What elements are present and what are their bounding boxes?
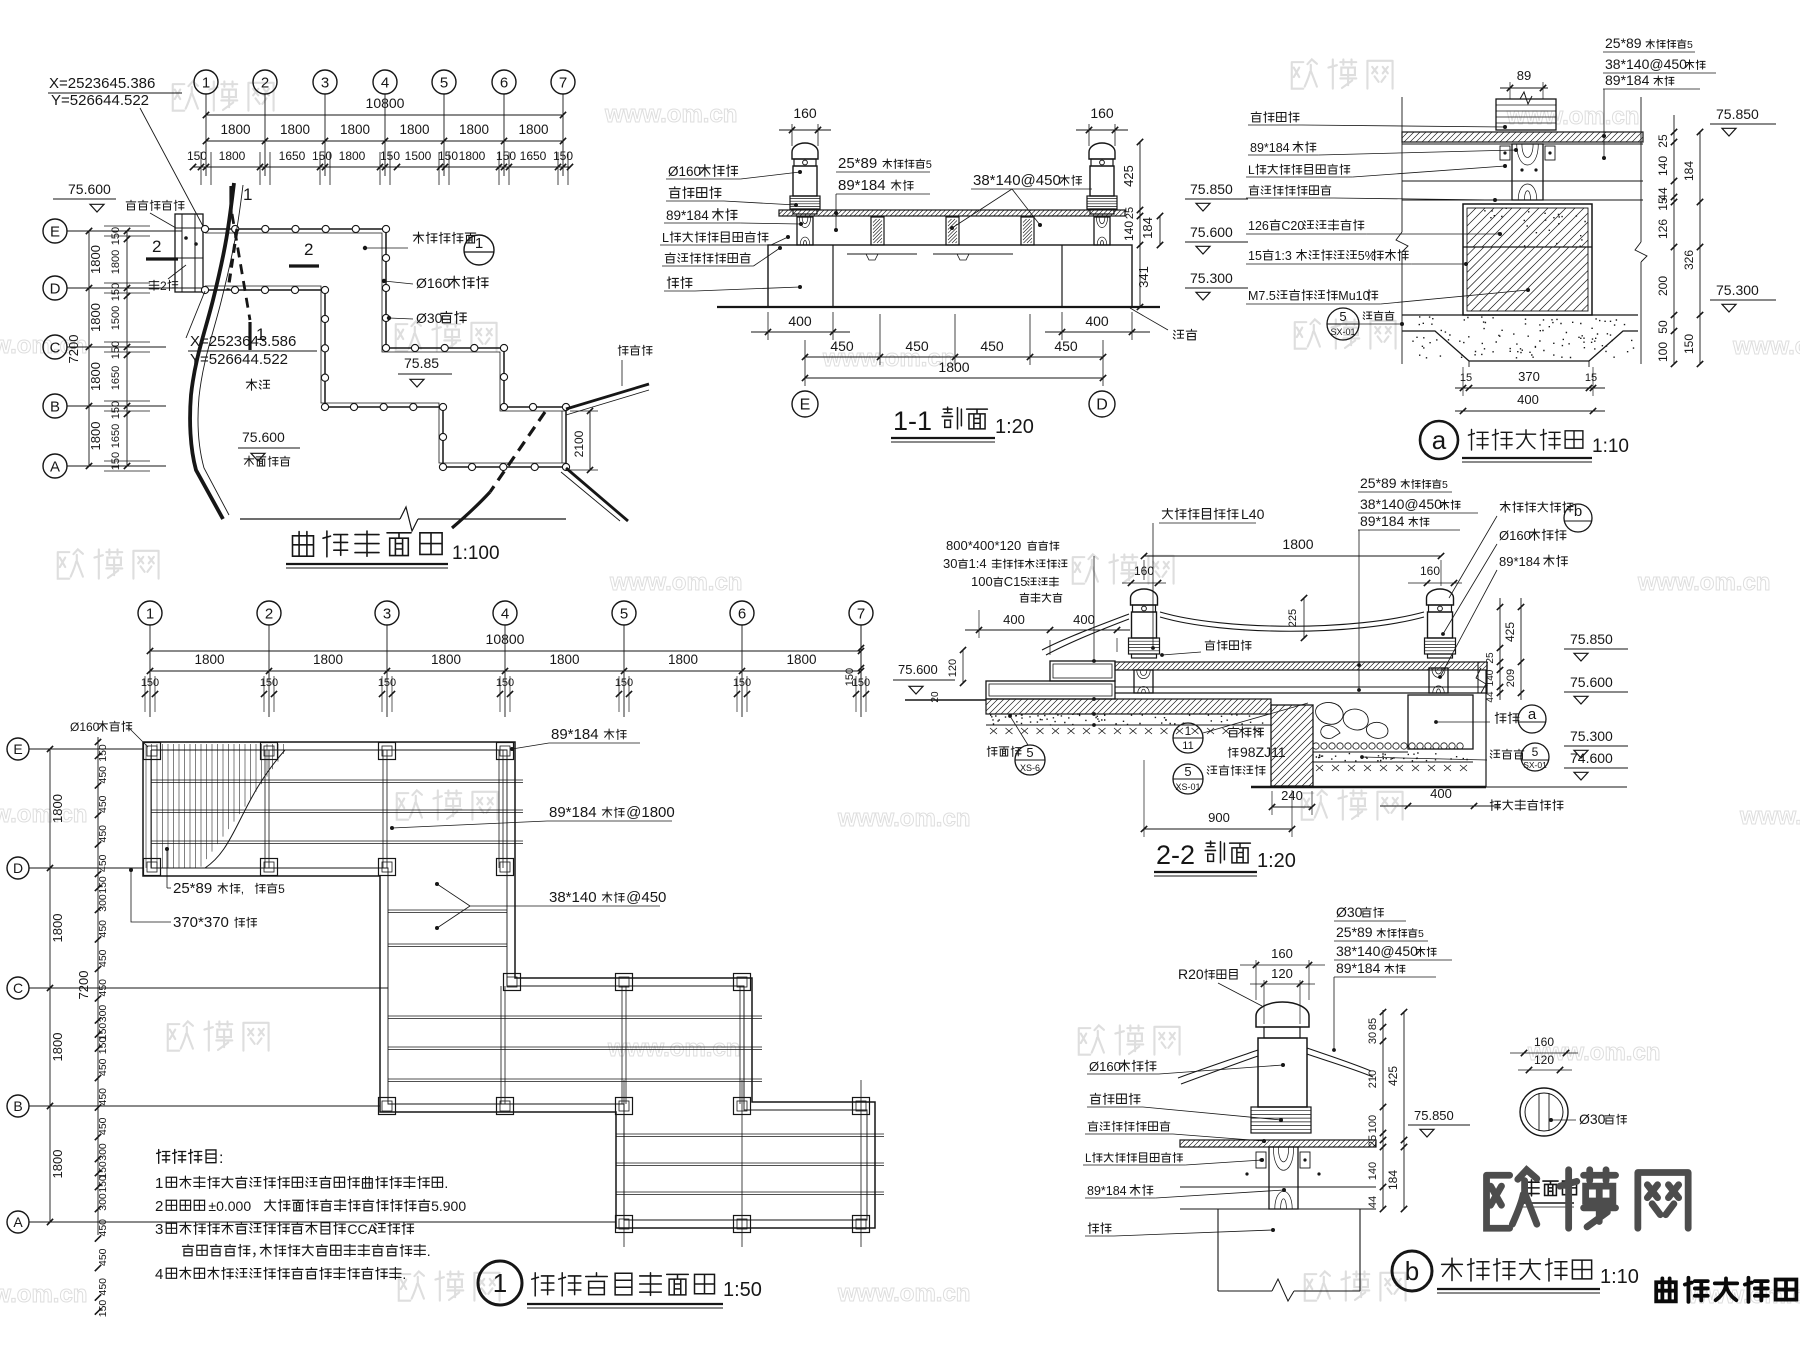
- svg-text:C: C: [13, 980, 23, 996]
- svg-text:1800: 1800: [219, 149, 246, 163]
- wood beam block under left post: [797, 217, 813, 245]
- shore diagonal below deck end: [566, 468, 628, 521]
- svg-text:3: 3: [155, 1221, 163, 1238]
- svg-text:1800: 1800: [50, 914, 65, 943]
- beam row bubble E: [7, 738, 29, 760]
- dashed shore diagonal bottom-right: [490, 412, 545, 492]
- svg-text:450: 450: [97, 1278, 109, 1296]
- shore line right diagonal: [566, 384, 649, 409]
- rope label 2-2: [1205, 640, 1215, 650]
- beam plan left dim chain: [49, 749, 51, 1222]
- svg-text:126: 126: [1248, 219, 1269, 233]
- svg-text:1500: 1500: [110, 306, 122, 330]
- svg-text:450: 450: [97, 1117, 109, 1135]
- svg-text:400: 400: [1003, 612, 1025, 627]
- svg-text:1800: 1800: [549, 652, 579, 667]
- svg-text:B: B: [50, 398, 60, 415]
- svg-text:1800: 1800: [339, 149, 366, 163]
- band C interior beams: [616, 1133, 884, 1135]
- svg-text:1:20: 1:20: [995, 416, 1034, 438]
- hatch wavy boundary: [205, 750, 285, 868]
- svg-text:www.om.cn: www.om.cn: [0, 801, 87, 828]
- plan dims 1800 row: [206, 140, 563, 142]
- svg-text:75.600: 75.600: [1570, 674, 1613, 690]
- svg-text:www.om.cn: www.om.cn: [837, 805, 970, 832]
- svg-text:A: A: [13, 1214, 23, 1230]
- design notes: [157, 1150, 170, 1164]
- svg-text:2: 2: [304, 240, 313, 259]
- svg-text:150: 150: [553, 149, 573, 163]
- beam row bubble D: [7, 857, 29, 879]
- svg-text:1-1: 1-1: [893, 406, 932, 436]
- svg-text:www.om.cn: www.om.cn: [1637, 569, 1770, 596]
- svg-text:2: 2: [265, 605, 273, 622]
- svg-text:E: E: [50, 223, 60, 240]
- deck plank band detail a: [1402, 132, 1643, 142]
- title detail b: [1392, 1251, 1432, 1291]
- label wood post detail ref b: [1500, 502, 1510, 513]
- row bubble E: [43, 219, 67, 243]
- svg-text:1800: 1800: [399, 122, 429, 137]
- svg-text:15: 15: [1460, 372, 1472, 384]
- section mark 1 top: [229, 186, 232, 214]
- svg-text:425: 425: [1121, 165, 1136, 187]
- band C grid verticals: [623, 1080, 625, 1247]
- svg-text:2: 2: [261, 74, 269, 91]
- svg-text:L40: L40: [1241, 506, 1265, 522]
- dims 400 below 1-1: [751, 331, 850, 333]
- svg-text:900: 900: [1208, 810, 1230, 825]
- svg-text:400: 400: [1430, 786, 1452, 801]
- svg-text:1:50: 1:50: [723, 1279, 762, 1301]
- grid bubble 5: [432, 70, 456, 94]
- svg-text:2: 2: [152, 237, 161, 256]
- pavement layers 2-2: [986, 699, 1271, 714]
- svg-text:450: 450: [97, 1058, 109, 1076]
- svg-text:.: .: [444, 1175, 448, 1191]
- label up-2-steps: [149, 280, 159, 290]
- beam plan inner edge lines: [151, 750, 867, 1220]
- svg-text:1800: 1800: [88, 422, 103, 451]
- svg-text:89: 89: [1517, 68, 1531, 83]
- svg-text:1800: 1800: [194, 652, 224, 667]
- beam plan post squares: [144, 743, 161, 760]
- row bubble B: [43, 394, 67, 418]
- title detail a: [1420, 421, 1458, 459]
- dim 900 2-2: [1144, 828, 1292, 830]
- detail-a left labels: [1251, 112, 1261, 122]
- dim 400 footing: [1455, 410, 1605, 412]
- svg-text:38*140@450: 38*140@450: [1360, 496, 1442, 512]
- svg-text:150: 150: [1682, 334, 1696, 354]
- svg-text:Ø160: Ø160: [1499, 528, 1531, 543]
- svg-text:XS-01: XS-01: [1175, 782, 1200, 792]
- label garage slab: [1490, 800, 1500, 811]
- bridge deck end cap: [565, 407, 567, 467]
- svg-text:75.300: 75.300: [1190, 270, 1233, 286]
- svg-text:341: 341: [1136, 266, 1151, 288]
- beam grid bubble 6: [730, 601, 754, 625]
- beam grid bubble 3: [375, 601, 399, 625]
- beam plan small dim chain: [97, 737, 99, 1235]
- svg-text:www.om.cn: www.om.cn: [0, 1281, 87, 1308]
- svg-text:1800: 1800: [313, 652, 343, 667]
- svg-text:1: 1: [146, 605, 154, 622]
- svg-text:450: 450: [1054, 338, 1078, 354]
- svg-text:150: 150: [260, 677, 278, 689]
- grid bubble 7: [551, 70, 575, 94]
- svg-text:1800: 1800: [340, 122, 370, 137]
- svg-text:1800: 1800: [50, 1033, 65, 1062]
- svg-text:5: 5: [620, 605, 628, 622]
- svg-text:10800: 10800: [366, 95, 405, 111]
- pier and pond wall outline 1-1: [768, 245, 1132, 307]
- wood joist block detail b: [1269, 1147, 1298, 1209]
- svg-text:2100: 2100: [572, 430, 586, 457]
- svg-text:89*184: 89*184: [1087, 1184, 1127, 1198]
- svg-text:400: 400: [788, 313, 812, 329]
- deck right end cap 2-2: [1477, 662, 1479, 693]
- svg-text:@450: @450: [626, 889, 666, 906]
- stone steps 2-2: [1050, 661, 1115, 681]
- svg-text:100: 100: [1656, 342, 1670, 362]
- svg-text:X=2523643.586: X=2523643.586: [190, 333, 296, 350]
- svg-text:400: 400: [1517, 392, 1539, 407]
- svg-text:,: ,: [241, 882, 244, 896]
- svg-text:370: 370: [1518, 369, 1540, 384]
- section mark 2 right: [289, 264, 319, 267]
- svg-text:425: 425: [1503, 622, 1517, 642]
- label stainless angle 2-2: [1162, 509, 1172, 519]
- plan small dims row: [193, 166, 570, 168]
- svg-text:150: 150: [615, 677, 633, 689]
- svg-text:150: 150: [110, 401, 122, 419]
- svg-text:±0.000: ±0.000: [208, 1198, 251, 1214]
- post right 1-1: [1089, 143, 1115, 159]
- svg-text:7: 7: [857, 605, 865, 622]
- svg-text:120: 120: [1271, 966, 1293, 981]
- svg-text:Ø160: Ø160: [416, 275, 450, 291]
- svg-text:38*140@450: 38*140@450: [973, 172, 1061, 189]
- svg-text:3: 3: [321, 74, 329, 91]
- row bubble D: [43, 276, 67, 300]
- svg-text:www.om.cn: www.om.cn: [1732, 333, 1800, 360]
- ground line 2-2: [905, 699, 986, 701]
- under-deck beams 2-2: [1115, 669, 1487, 671]
- svg-text:25*89: 25*89: [838, 155, 877, 172]
- svg-text:4: 4: [381, 74, 389, 91]
- svg-text:150: 150: [187, 149, 207, 163]
- svg-text:1650: 1650: [110, 424, 122, 448]
- svg-text:450: 450: [97, 795, 109, 813]
- bridge deck plan zigzag outer edge: [205, 229, 566, 407]
- svg-text:1:4: 1:4: [969, 556, 987, 571]
- svg-text:X=2523645.386: X=2523645.386: [49, 75, 155, 92]
- dim chain 2-2 middle: [1499, 598, 1501, 700]
- svg-text:1:3: 1:3: [1274, 249, 1291, 263]
- svg-text:1:10: 1:10: [1600, 1266, 1639, 1288]
- svg-text:1800: 1800: [88, 362, 103, 391]
- svg-text:C20: C20: [1281, 219, 1304, 233]
- svg-text:1: 1: [202, 74, 210, 91]
- svg-text:210: 210: [1367, 1070, 1379, 1088]
- svg-text:150: 150: [141, 677, 159, 689]
- svg-text:200: 200: [1656, 276, 1670, 296]
- svg-text:5: 5: [926, 159, 932, 171]
- svg-text:450: 450: [97, 979, 109, 997]
- rope curves detail b: [1178, 1050, 1258, 1078]
- svg-text:75.850: 75.850: [1716, 106, 1759, 122]
- svg-text:R20: R20: [1178, 966, 1204, 982]
- svg-text:30: 30: [1367, 1032, 1379, 1044]
- svg-text:25*89: 25*89: [1605, 35, 1642, 51]
- svg-text:5%: 5%: [1358, 249, 1376, 263]
- svg-text:160: 160: [1420, 564, 1440, 578]
- dim 1800 2-2: [1144, 555, 1441, 557]
- label stone steps: [126, 200, 136, 210]
- svg-text:www.om.cn: www.om.cn: [1506, 103, 1639, 130]
- svg-text:209: 209: [1505, 669, 1517, 687]
- svg-text:150: 150: [97, 1300, 109, 1318]
- svg-text:www.om.cn: www.om.cn: [1739, 803, 1800, 830]
- svg-text:5: 5: [1339, 309, 1346, 324]
- svg-text:75.850: 75.850: [1190, 181, 1233, 197]
- under-deck beams detail b: [1180, 1146, 1376, 1148]
- svg-text:1800: 1800: [1282, 536, 1313, 552]
- svg-text:100: 100: [971, 574, 993, 589]
- svg-text:D: D: [13, 860, 23, 876]
- svg-text:1800: 1800: [786, 652, 816, 667]
- svg-text:XS-6: XS-6: [1020, 763, 1040, 773]
- pond bottom line 1-1: [717, 306, 1160, 308]
- svg-text:425: 425: [1386, 1066, 1400, 1086]
- svg-text:www.om.cn: www.om.cn: [837, 1280, 970, 1307]
- svg-text:1800: 1800: [459, 122, 489, 137]
- watermark layer: [173, 81, 198, 110]
- svg-text:150: 150: [378, 677, 396, 689]
- post block with break top: [1496, 99, 1556, 130]
- row bubble A: [43, 454, 67, 478]
- svg-text:SX-01: SX-01: [1523, 760, 1547, 770]
- svg-text::: :: [219, 1150, 223, 1167]
- svg-text:160: 160: [1271, 946, 1293, 961]
- angle plates: [1500, 146, 1510, 160]
- svg-text:1650: 1650: [110, 366, 122, 390]
- svg-text:25*89: 25*89: [1360, 475, 1397, 491]
- svg-text:1800: 1800: [938, 359, 969, 375]
- deck band detail b: [1180, 1140, 1376, 1147]
- svg-text:20: 20: [930, 691, 941, 703]
- svg-text:400: 400: [1085, 313, 1109, 329]
- svg-text:89*184: 89*184: [551, 726, 599, 743]
- beam grid bubble 5: [612, 601, 636, 625]
- svg-text:89*184: 89*184: [1250, 141, 1290, 155]
- svg-text:L: L: [1248, 163, 1255, 177]
- rope curve 2-2: [1160, 612, 1424, 626]
- svg-text:450: 450: [980, 338, 1004, 354]
- svg-text:1650: 1650: [520, 149, 547, 163]
- svg-text:D: D: [50, 280, 61, 297]
- svg-text:SX-01: SX-01: [1330, 327, 1355, 337]
- svg-text:1800: 1800: [459, 149, 486, 163]
- svg-text:184: 184: [1140, 217, 1155, 239]
- svg-text:2: 2: [160, 279, 167, 293]
- svg-text:Ø30: Ø30: [1336, 904, 1363, 920]
- plan title: [293, 532, 314, 557]
- label brick pier a 2-2: [1495, 712, 1506, 723]
- svg-text:1: 1: [243, 185, 252, 204]
- svg-text:120: 120: [947, 659, 959, 677]
- svg-text:.: .: [402, 1266, 406, 1282]
- svg-text:5: 5: [1532, 745, 1539, 759]
- svg-text:38*140@450: 38*140@450: [1336, 943, 1418, 959]
- dims 400 400 2-2: [965, 629, 1130, 631]
- label revetment line: [618, 345, 628, 355]
- footing bottom dims: [1455, 387, 1605, 389]
- svg-text:www.om.cn: www.om.cn: [604, 101, 737, 128]
- grid bubble 1: [194, 70, 218, 94]
- dims 450 row 1-1: [805, 356, 1103, 358]
- svg-text:50: 50: [1656, 320, 1670, 334]
- svg-text:B: B: [13, 1098, 22, 1114]
- svg-text:7200: 7200: [76, 971, 91, 1000]
- rope wrap band detail b: [1251, 1107, 1311, 1133]
- svg-text:1800: 1800: [668, 652, 698, 667]
- svg-text:1800: 1800: [518, 122, 548, 137]
- section mark 2 left: [146, 257, 178, 260]
- deck plank band 1-1: [779, 210, 1125, 216]
- right dim chain detail b: [1382, 1010, 1384, 1209]
- pond rocks: [1316, 703, 1343, 725]
- svg-text:150: 150: [733, 677, 751, 689]
- svg-text:75.850: 75.850: [1414, 1108, 1454, 1123]
- svg-text:150: 150: [97, 1175, 109, 1193]
- band A interior verticals: [264, 750, 266, 868]
- dim 1800 1-1: [805, 377, 1103, 379]
- grid bubble 4: [373, 70, 397, 94]
- beam plan title: [478, 1261, 522, 1305]
- wood block left 2-2: [1134, 670, 1153, 693]
- post body detail b: [1258, 1038, 1307, 1107]
- post cap detail b: [1256, 1002, 1309, 1027]
- svg-text:150: 150: [496, 677, 514, 689]
- svg-text:2-2: 2-2: [1156, 840, 1195, 870]
- svg-text:b: b: [1574, 503, 1582, 520]
- svg-text:38*140@450: 38*140@450: [1605, 56, 1687, 72]
- brick hatch: [1467, 247, 1588, 311]
- svg-text:5: 5: [1687, 39, 1693, 51]
- svg-text:Ø160: Ø160: [668, 164, 701, 179]
- wood beam block under right post: [1094, 217, 1110, 245]
- svg-text:25*89: 25*89: [173, 880, 212, 897]
- waterline marks: [847, 253, 917, 255]
- sheet title curved bridge details: [1656, 1278, 1676, 1301]
- svg-text:450: 450: [97, 825, 109, 843]
- post left 1-1: [792, 143, 818, 159]
- svg-text:140: 140: [1367, 1162, 1379, 1180]
- detail ref bubble 5/SX-01 left: [1327, 308, 1359, 340]
- svg-text:75.600: 75.600: [1190, 224, 1233, 240]
- svg-text:44: 44: [1367, 1196, 1379, 1208]
- svg-text:Ø30: Ø30: [416, 310, 443, 326]
- svg-text:44: 44: [1485, 691, 1496, 703]
- svg-text:5: 5: [1184, 764, 1191, 779]
- svg-text:89*184: 89*184: [1360, 513, 1405, 529]
- svg-text:1: 1: [475, 235, 483, 252]
- wood joist block detail a: [1512, 144, 1543, 200]
- grid bubble 6: [492, 70, 516, 94]
- svg-text:25: 25: [1124, 207, 1136, 219]
- joists 38x140: [871, 217, 884, 245]
- svg-text:370*370: 370*370: [173, 914, 229, 931]
- row bubble C: [43, 335, 67, 359]
- svg-text:4: 4: [155, 1266, 163, 1283]
- svg-text:C: C: [50, 339, 61, 356]
- plan bottom shore line with break: [240, 518, 400, 520]
- pond curve dashes across deck: [228, 229, 237, 290]
- svg-text:75.85: 75.85: [404, 355, 439, 371]
- svg-text:225: 225: [1287, 609, 1299, 627]
- svg-text:Ø160: Ø160: [70, 720, 100, 734]
- foundation footing: [1402, 314, 1638, 316]
- label pond: [246, 379, 256, 390]
- svg-text:11: 11: [1182, 740, 1193, 752]
- beam grid bubble 7: [849, 601, 873, 625]
- svg-text:E: E: [13, 741, 22, 757]
- dim 120 and 20 2-2: [962, 650, 964, 683]
- label pond bottom ref 2-2: [1490, 750, 1499, 758]
- angle plates detail b: [1256, 1152, 1266, 1168]
- pond left wall hatched: [1271, 705, 1313, 786]
- svg-text:7: 7: [559, 74, 567, 91]
- pond bottom label 1-1: [1130, 308, 1168, 330]
- section line 1-1 dashed: [232, 214, 250, 320]
- svg-text:5: 5: [1418, 928, 1424, 940]
- svg-text:184: 184: [1682, 161, 1696, 181]
- svg-text:Y=526644.522: Y=526644.522: [51, 92, 149, 109]
- svg-text:150: 150: [110, 283, 122, 301]
- svg-text:Ø30: Ø30: [1579, 1111, 1606, 1127]
- beam plan dim 10800: [150, 650, 861, 652]
- svg-text:98ZJ11: 98ZJ11: [1240, 744, 1286, 760]
- svg-text:1800: 1800: [110, 250, 122, 274]
- grid bubble D 1-1: [1089, 391, 1115, 417]
- svg-text:450: 450: [97, 1248, 109, 1266]
- svg-text:160: 160: [793, 105, 817, 121]
- svg-text:1800: 1800: [431, 652, 461, 667]
- svg-text:75.600: 75.600: [898, 662, 938, 677]
- svg-text:140: 140: [1656, 156, 1670, 176]
- 2-2 left dim line under grid 7: [860, 625, 862, 700]
- detail bubble pond wall 5/XS-01: [1173, 764, 1203, 794]
- svg-text:1:100: 1:100: [452, 543, 500, 564]
- svg-text:4: 4: [501, 605, 509, 622]
- dim 2100: [589, 411, 591, 470]
- svg-text:a: a: [1432, 425, 1447, 455]
- beam row bubble B: [7, 1095, 29, 1117]
- pond edge curve thick: [190, 183, 234, 519]
- svg-text:a: a: [1528, 706, 1537, 723]
- concrete cap hatch: [1467, 208, 1588, 247]
- plan post circles: [201, 225, 208, 232]
- beam row bubble C: [7, 977, 29, 999]
- stone steps block: [175, 214, 203, 292]
- post left 2-2: [1131, 589, 1158, 605]
- pond floor layers 2-2: [1313, 751, 1408, 753]
- svg-text:6: 6: [500, 74, 508, 91]
- pier below detail b: [1217, 1209, 1219, 1291]
- svg-text:www.om.cn: www.om.cn: [609, 569, 742, 596]
